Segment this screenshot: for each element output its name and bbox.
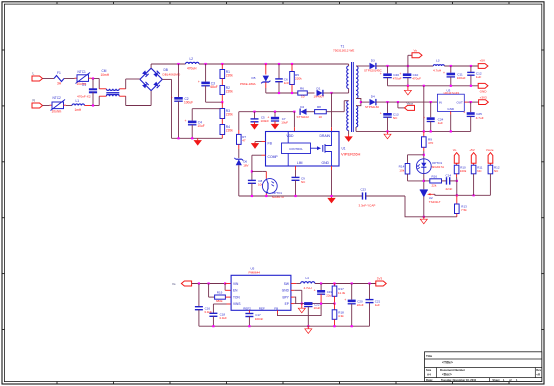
thermistor NTC1 [75, 77, 78, 79]
svg-text:DRAIN: DRAIN [319, 134, 330, 138]
resistor R17 [332, 286, 337, 296]
wire C10 bottom [407, 78, 409, 86]
wire mid to REF rail [456, 181, 458, 195]
resistor R6 [298, 91, 308, 95]
node R14 branch [423, 154, 425, 156]
svg-text:A4: A4 [427, 372, 431, 376]
resistor R12 [488, 165, 493, 174]
capacitor C17 [245, 313, 253, 315]
junction C4/HV- [191, 137, 193, 139]
capacitor C8 [248, 179, 256, 181]
wire sec bottom pin [355, 127, 357, 131]
wire C6 top [278, 64, 280, 79]
svg-text:Title: Title [426, 354, 432, 358]
wire LIM down [295, 170, 297, 177]
wire C13 bottom [387, 117, 389, 131]
node COMP/opto [251, 170, 253, 172]
wire LDO gnd down [450, 115, 452, 132]
svg-text:10: 10 [319, 115, 323, 119]
svg-text:R16: R16 [432, 175, 438, 179]
wire C12 bottom [470, 75, 472, 86]
wire COMP [252, 154, 262, 156]
junction C2/HV- [177, 137, 179, 139]
svg-text:C14: C14 [446, 173, 452, 177]
capacitor C14 [446, 177, 448, 184]
svg-text:+: + [267, 115, 269, 119]
svg-text:Vo: Vo [414, 48, 418, 52]
diode D1 [317, 90, 323, 96]
ground U1 [331, 196, 333, 198]
junction opto emitter [265, 195, 267, 197]
HV+ rail left segment [151, 63, 185, 65]
+5V rail seg2 [444, 65, 478, 67]
wire C11 top [450, 66, 452, 73]
svg-text:SFH617A: SFH617A [432, 165, 445, 169]
VDD rail [239, 111, 295, 113]
wire choke pin4 up [125, 79, 127, 89]
wire BPY down [294, 297, 295, 304]
svg-text:<Doc>: <Doc> [442, 373, 452, 377]
wire C4 top [191, 109, 193, 121]
svg-text:220k: 220k [295, 77, 302, 81]
wire Vo right [408, 54, 412, 56]
Vaux line [376, 101, 437, 103]
svg-text:D1: D1 [317, 86, 321, 90]
buck out rail [315, 283, 376, 285]
node C20 top [386, 65, 388, 67]
~ [209, 296, 215, 298]
capacitor C1 [89, 88, 97, 90]
junction FB/C19 [320, 303, 322, 305]
wire TL431 anode down [423, 197, 425, 217]
svg-text:R6: R6 [300, 87, 304, 91]
snubber bottom rail [266, 92, 298, 94]
wire U1 gnd down [331, 170, 333, 196]
svg-text:CONTROL: CONTROL [289, 147, 303, 151]
resistor R10 [454, 165, 459, 174]
junction C18 [212, 325, 214, 327]
capacitor C16 [195, 306, 203, 308]
junction R10/R13 [456, 194, 458, 196]
svg-text:D4: D4 [371, 95, 375, 99]
port 3V3 out [376, 281, 386, 286]
resistor R9 [422, 137, 427, 148]
wire R14 to node [408, 180, 424, 182]
wire primary bottom pin [348, 89, 350, 94]
wire R14 bottom [407, 174, 409, 181]
svg-text:Vo: Vo [453, 148, 457, 152]
wire to bridge AC1 [126, 78, 140, 80]
junction C24 bottom [430, 130, 432, 132]
port Vo [412, 53, 422, 58]
svg-text:C23: C23 [361, 187, 367, 191]
wire R16 to C14 [442, 180, 447, 182]
wire tap to D4 [361, 101, 369, 103]
port L [32, 76, 43, 81]
ground secondary rail2 [387, 131, 389, 134]
svg-text:680k: 680k [216, 299, 223, 303]
wire C20 top [387, 66, 389, 73]
wire D2 to R8 [307, 111, 315, 113]
svg-text:GND: GND [480, 89, 488, 93]
svg-text:VDD: VDD [286, 134, 294, 138]
svg-text:COMP: COMP [268, 155, 279, 159]
svg-text:1uF: 1uF [438, 121, 443, 125]
svg-text:+: + [399, 72, 401, 76]
svg-text:18V: 18V [243, 163, 248, 167]
node R2/R3 [221, 101, 223, 103]
resistor R18 [332, 310, 337, 320]
node C25 top [470, 101, 472, 103]
svg-text:+: + [184, 119, 186, 123]
svg-text:3.3nF-YCAP: 3.3nF-YCAP [359, 203, 376, 207]
capacitor C3 [201, 82, 210, 85]
T1 primary [347, 66, 349, 89]
FB wire [278, 304, 322, 316]
svg-text:IN: IN [439, 100, 442, 104]
svg-text:3.3uF: 3.3uF [219, 316, 227, 320]
svg-text:470: 470 [428, 141, 433, 145]
wire up to bridge bottom vertex [150, 91, 152, 106]
wire R7 top [238, 112, 240, 130]
EP rail [294, 303, 334, 305]
wire C3 bottom [205, 86, 207, 102]
ground aux winding [348, 135, 350, 137]
wire C18 top [212, 304, 214, 313]
junction TON riser [208, 282, 210, 284]
thermistor NTC2 [50, 104, 53, 106]
svg-text:10uF: 10uF [281, 120, 288, 124]
capacitor C11 [447, 73, 456, 76]
junction C17 [248, 325, 250, 327]
wire C2 top [178, 64, 180, 97]
wire C20 bottom [387, 78, 389, 86]
svg-text:10mH: 10mH [101, 73, 110, 77]
wire to bridge AC2 [126, 105, 151, 107]
svg-text:+: + [344, 298, 346, 302]
wire C17 bottom [248, 317, 250, 327]
svg-text:D5: D5 [252, 76, 256, 80]
node C6 top [278, 63, 280, 65]
wire C13 top [387, 102, 389, 113]
svg-text:C1: C1 [82, 83, 86, 87]
ground C5 [254, 122, 256, 125]
node C24/VIN [430, 101, 432, 103]
wire C20b bottom [351, 304, 353, 326]
svg-text:EP: EP [285, 302, 289, 306]
capacitor C20 [383, 73, 392, 76]
diode D2 [300, 109, 306, 115]
port N [32, 103, 43, 108]
svg-text:+: + [198, 80, 200, 84]
junction VDD pin [293, 111, 295, 113]
svg-text:1nF: 1nF [284, 81, 289, 85]
wire GND down [301, 290, 303, 303]
capacitor C2 [174, 97, 183, 100]
shunt regulator TL431 U2 [420, 189, 428, 191]
port +3V3 [479, 100, 489, 105]
svg-text:STTH102: STTH102 [297, 115, 310, 119]
svg-text:PM8644: PM8644 [249, 270, 261, 274]
svg-text:11.3k: 11.3k [338, 291, 346, 295]
svg-text:L3: L3 [436, 59, 440, 63]
svg-text:4.3k: 4.3k [338, 314, 344, 318]
svg-text:NC: NC [393, 116, 398, 120]
junction C19 [320, 282, 322, 284]
bridge rectifier DB [140, 68, 151, 79]
wire R12 down [489, 174, 491, 196]
wire C20b top [351, 284, 353, 300]
node N-rail / C1 bottom [92, 104, 94, 106]
ground buck rail [307, 326, 309, 329]
T1 aux [347, 101, 349, 131]
capacitor C21 [366, 299, 374, 301]
wire TON riser [208, 284, 210, 298]
junction C7 [274, 111, 276, 113]
secondary gnd rail [388, 85, 479, 87]
wire R10 to mid [456, 177, 458, 181]
svg-text:1N4007: 1N4007 [314, 95, 325, 99]
svg-text:Document Number: Document Number [440, 368, 466, 372]
optocoupler OPTO1 LED side [416, 159, 431, 174]
+5V rail seg1 [376, 65, 433, 67]
ground secondary rail [407, 86, 409, 91]
resistor R4 [220, 125, 225, 135]
wire EN riser [224, 284, 226, 291]
ground U5 gnd pin [301, 304, 303, 309]
node Vo tap [407, 65, 409, 67]
junction C8 [251, 195, 253, 197]
svg-text:VIN: VIN [233, 282, 239, 286]
svg-text:Vaux: Vaux [407, 102, 414, 106]
svg-text:L4: L4 [306, 276, 310, 280]
svg-text:NTC1: NTC1 [78, 70, 87, 74]
svg-text:4.7uF: 4.7uF [476, 116, 484, 120]
wire D1 to drain node [324, 92, 332, 94]
wire C21b bottom [369, 303, 371, 327]
junction gnd arrow [407, 85, 409, 87]
capacitor C25 [467, 112, 475, 115]
svg-text:220k: 220k [226, 73, 233, 77]
wire sec top pin to D3 [356, 65, 369, 67]
junction LDO gnd [450, 130, 452, 132]
svg-text:+: + [171, 96, 173, 100]
svg-text:220k: 220k [226, 128, 233, 132]
wire C24 top [430, 102, 432, 117]
junction C20b [351, 325, 353, 327]
svg-text:LD1117xx33: LD1117xx33 [444, 91, 460, 95]
wire C5 top [254, 112, 256, 119]
svg-text:Tuesday, November 16, 2010: Tuesday, November 16, 2010 [441, 378, 477, 382]
junction U1 gnd [330, 195, 332, 197]
fuse F1 [54, 76, 64, 82]
wire N to NTC2 [43, 105, 50, 107]
svg-text:of: of [509, 378, 512, 382]
capacitor C12 [467, 71, 474, 73]
common-mode choke CM [106, 89, 119, 91]
wire C19 top [320, 284, 322, 291]
svg-text:100nF: 100nF [255, 317, 264, 321]
resistor R2 [220, 86, 225, 95]
port +5V [478, 64, 488, 69]
junction C21b [368, 282, 370, 284]
svg-text:+5V: +5V [480, 58, 487, 62]
node L-rail / C1 top [92, 77, 94, 79]
T1 sec top [356, 66, 358, 99]
junction R5 bottom [291, 92, 293, 94]
diode D3 [370, 63, 376, 69]
svg-text:220k: 220k [226, 89, 233, 93]
wire opto to TL431 [423, 174, 425, 190]
resistor R19 [215, 295, 226, 299]
wire D6 down [238, 165, 240, 196]
capacitor C5 [251, 118, 259, 120]
junction EN riser [224, 282, 226, 284]
svg-text:22uF: 22uF [357, 303, 364, 307]
capacitor C20 out [348, 300, 356, 303]
capacitor C13 [383, 113, 392, 116]
border zone ticks [56, 2, 58, 5]
wire C11 bottom [450, 77, 452, 86]
FB arrow symbol [254, 142, 256, 144]
svg-text:L: L [33, 72, 35, 76]
wire C25 top [470, 102, 472, 112]
svg-text:Vs: Vs [172, 282, 176, 286]
svg-text:R19: R19 [217, 291, 223, 295]
svg-text:47: 47 [242, 139, 246, 143]
junction R11 [473, 194, 475, 196]
wire C16 bottom [198, 310, 200, 327]
wire C25 bottom [470, 116, 472, 131]
svg-text:+: + [380, 72, 382, 76]
junction vert link top [423, 85, 425, 87]
junction GND/EP [301, 303, 303, 305]
secondary gnd rail 2 [356, 130, 471, 132]
resistor R16 [430, 179, 442, 183]
wire C6 bottom [278, 82, 280, 93]
wire C24 bottom [430, 122, 432, 132]
wire choke pin3 down [125, 96, 127, 105]
U1 gate arrow [311, 147, 318, 149]
primary gnd rail [239, 195, 363, 197]
zener diode D6 [236, 159, 242, 165]
svg-text:1mH: 1mH [75, 108, 82, 112]
junction C22/gnd [307, 325, 309, 327]
wire aux top pin [344, 100, 348, 102]
wire NTC2 to L1 [66, 105, 72, 107]
svg-text:Date:: Date: [426, 378, 433, 382]
svg-text:7.5k: 7.5k [461, 208, 467, 212]
svg-text:22k: 22k [432, 183, 437, 187]
junction link bottom [423, 130, 425, 132]
svg-text:LIM: LIM [297, 161, 303, 165]
svg-text:FB: FB [268, 141, 273, 145]
T1 sec bottom [356, 106, 358, 127]
node FB filter [423, 180, 425, 182]
wire C1 top [92, 79, 94, 89]
wire C21b top [369, 284, 371, 300]
svg-text:68uF: 68uF [210, 85, 217, 89]
junction R17 [333, 282, 335, 284]
node center tap [360, 101, 362, 103]
inductor L2 [186, 62, 200, 64]
port GND [478, 83, 488, 88]
wire to TL431 gnd [405, 196, 424, 217]
wire COMP down [251, 155, 253, 180]
~ [263, 170, 267, 172]
svg-text:+: + [380, 112, 382, 116]
svg-text:FB: FB [274, 306, 278, 310]
svg-text:D2: D2 [300, 105, 304, 109]
wire R14 top [407, 155, 409, 164]
U1 internal VDD/LIM line [287, 132, 289, 144]
svg-text:GND: GND [321, 161, 329, 165]
svg-text:NTC2: NTC2 [53, 96, 62, 100]
HV- rail [172, 137, 223, 139]
capacitor C6 [275, 78, 283, 80]
svg-text:470uF: 470uF [412, 77, 421, 81]
wire to primary bottom pin [332, 92, 348, 94]
node C2 top [177, 63, 179, 65]
svg-text:+: + [443, 71, 445, 75]
svg-text:+: + [423, 116, 425, 120]
svg-text:SW: SW [284, 282, 289, 286]
IC U5 PM8644 [231, 275, 291, 310]
wire Vaux down [397, 102, 399, 108]
wire C12 top [470, 66, 472, 72]
svg-text:D3: D3 [371, 59, 375, 63]
wire R7 to D6 [238, 149, 240, 158]
capacitor C10 [403, 73, 412, 76]
U1 mosfet [322, 145, 324, 152]
svg-text:10uF: 10uF [314, 306, 321, 310]
wire bridge + up [150, 64, 152, 68]
port +5V sense [471, 153, 476, 164]
wire GND pin [294, 289, 302, 291]
wire primary top pin [348, 64, 350, 66]
junction C12 bottom [470, 85, 472, 87]
inductor L1 [72, 104, 85, 106]
svg-text:100k: 100k [460, 169, 467, 173]
wire R9 to opto [423, 151, 425, 159]
node D5 top [265, 63, 267, 65]
junction R18 [333, 325, 335, 327]
wire primary top pin2 [348, 63, 349, 65]
wire L1 to choke [90, 105, 99, 107]
ground C7 [274, 121, 276, 124]
wire ref [434, 193, 436, 195]
node divider mid [456, 180, 458, 182]
svg-text:1uF: 1uF [476, 75, 481, 79]
wire R6 to D1 [307, 92, 314, 94]
junction C13 bottom [386, 130, 388, 132]
svg-text:L1: L1 [76, 99, 80, 103]
wire bridge - right [162, 78, 171, 80]
wire C1 bottom [92, 92, 94, 105]
HV+ rail right segment [199, 63, 348, 65]
resistor R13 [455, 204, 460, 214]
svg-text:10uF: 10uF [197, 124, 204, 128]
port Vs in [181, 281, 191, 286]
capacitor C4 [188, 121, 197, 124]
svg-text:470uF: 470uF [393, 77, 402, 81]
svg-text:220k: 220k [226, 112, 233, 116]
transformer T1 core [351, 62, 353, 132]
inductor L3 [433, 65, 444, 66]
svg-text:+5V: +5V [469, 148, 474, 152]
wire bridge - down [171, 79, 173, 138]
capacitor C7 [271, 117, 279, 120]
